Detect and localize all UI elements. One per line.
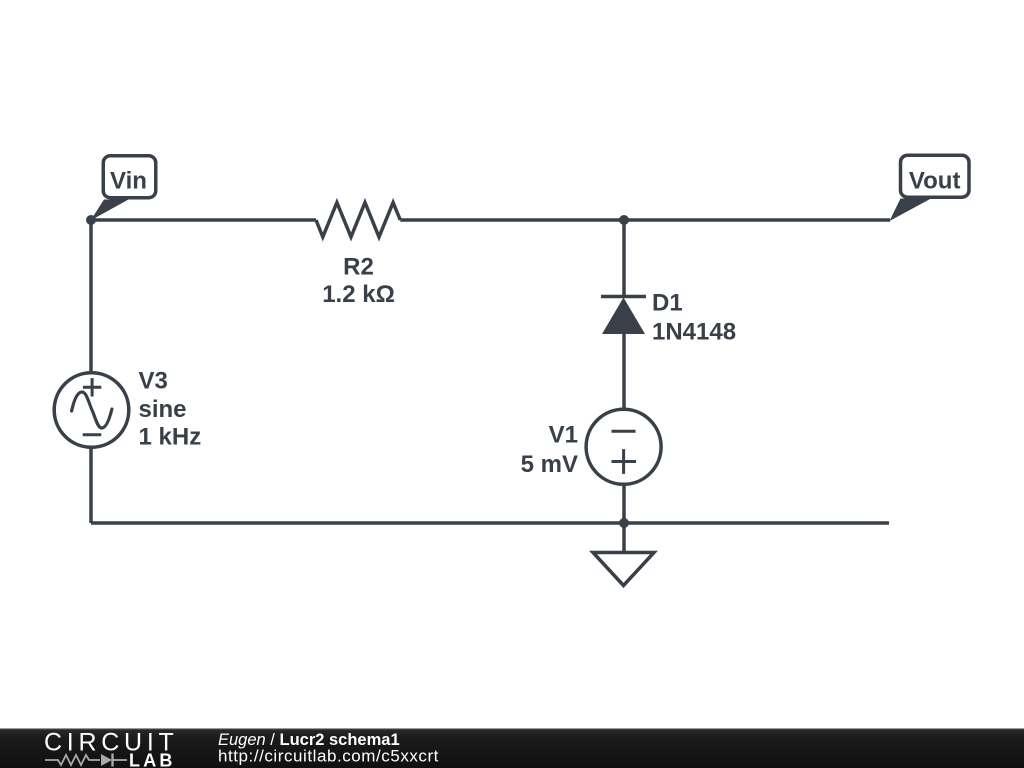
- wire V1 bottom to rail: [622, 484, 626, 523]
- wire top right segment: [400, 218, 890, 222]
- CircuitLab logo CIRCUIT: [44, 729, 177, 757]
- svg-text:1N4148: 1N4148: [652, 318, 736, 345]
- label V3: [139, 368, 202, 451]
- junction dot at ground rail: [619, 518, 629, 528]
- svg-text:http://circuitlab.com/c5xxcrt: http://circuitlab.com/c5xxcrt: [218, 747, 439, 766]
- wire top left segment: [91, 218, 316, 222]
- wire bottom rail: [91, 521, 889, 525]
- svg-text:V3: V3: [139, 368, 168, 395]
- CircuitLab logo LAB: [129, 751, 176, 768]
- label R2 value: [322, 254, 395, 309]
- svg-text:Vout: Vout: [909, 168, 961, 195]
- svg-text:V1: V1: [549, 422, 578, 449]
- label D1: [652, 290, 736, 346]
- wire left vertical (Vin to V3): [89, 220, 93, 374]
- footer bar: [0, 728, 1024, 768]
- CircuitLab logo resistor-diode squiggle: [45, 754, 127, 767]
- node Vout: [890, 155, 970, 221]
- junction dot at Vin node: [86, 215, 96, 225]
- svg-text:Vin: Vin: [110, 168, 147, 195]
- svg-text:5 mV: 5 mV: [521, 451, 578, 478]
- svg-text:sine: sine: [139, 396, 187, 423]
- svg-text:D1: D1: [652, 290, 683, 317]
- node Vin: [91, 156, 156, 221]
- wire V3 bottom to ground rail: [89, 446, 93, 523]
- voltage source V1: [586, 409, 661, 484]
- ground: [593, 523, 654, 586]
- svg-text:1 kHz: 1 kHz: [139, 424, 202, 451]
- wire diode branch upper: [622, 220, 626, 297]
- footer title: Eugen / Lucr2 schema1: [218, 731, 400, 749]
- resistor R2: [316, 203, 400, 238]
- junction dot at diode top: [619, 215, 629, 225]
- svg-text:R2: R2: [343, 254, 374, 281]
- diode D1: [601, 297, 646, 411]
- label V1: [521, 422, 578, 479]
- svg-text:1.2 kΩ: 1.2 kΩ: [322, 281, 395, 308]
- footer url: [218, 747, 439, 766]
- voltage source V3 (sine): [54, 373, 129, 448]
- svg-text:LAB: LAB: [129, 751, 176, 768]
